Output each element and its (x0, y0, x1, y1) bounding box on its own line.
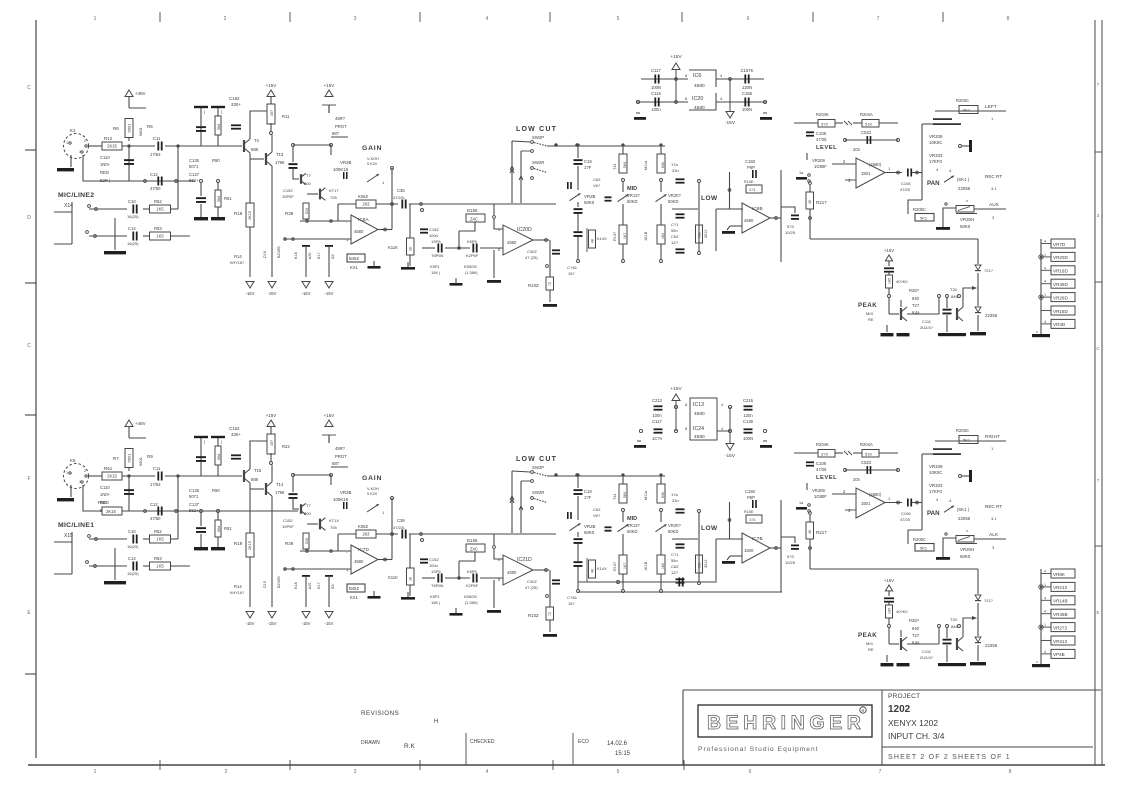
svg-text:1?F: 1?F (584, 495, 592, 500)
svg-text:KHY16?: KHY16? (230, 591, 244, 595)
svg-text:-15V: -15V (268, 621, 277, 626)
svg-text:17a: 17a (671, 492, 678, 497)
header pin VR16D (1041, 269, 1051, 271)
svg-text:1G80F: 1G80F (814, 494, 827, 499)
svg-text:Z4C: Z4C (470, 547, 478, 552)
svg-text:C12: C12 (150, 502, 158, 507)
high EQ column C19 (577, 144, 579, 146)
svg-text:3.1: 3.1 (991, 186, 997, 191)
svg-text:VR20?: VR20? (668, 193, 681, 198)
svg-text:Professional Studio Equipment: Professional Studio Equipment (698, 746, 819, 753)
svg-text:K4a: K4a (912, 640, 920, 645)
svg-text:C14: C14 (128, 226, 136, 231)
resistor R108 (746, 515, 762, 523)
svg-text:33n: 33n (672, 168, 679, 173)
svg-text:5071: 5071 (189, 164, 199, 169)
svg-text:3012: 3012 (704, 230, 708, 238)
insert return row (89, 235, 127, 237)
-15V symbol 2 (726, 444, 734, 451)
svg-text:705: 705 (330, 525, 337, 530)
ground aux (942, 556, 944, 557)
svg-text:55n: 55n (671, 228, 678, 233)
transistor KT1X (307, 523, 318, 525)
svg-text:VR16D: VR16D (1053, 269, 1068, 274)
svg-text:VR213: VR213 (1053, 585, 1067, 590)
svg-text:C15Z: C15Z (429, 557, 439, 562)
svg-text:+15V: +15V (884, 248, 894, 253)
svg-text:K2P6F: K2P6F (466, 583, 479, 588)
title block frame (682, 690, 684, 765)
svg-text:-15V: -15V (302, 621, 311, 626)
Behringer logo (698, 705, 872, 737)
level input wire (794, 452, 818, 454)
svg-text:R22: R22 (282, 444, 290, 449)
svg-text:K4a: K4a (912, 310, 920, 315)
svg-text:R205C: R205C (913, 207, 926, 212)
frame right double border (1094, 20, 1096, 765)
svg-text:C215: C215 (743, 398, 754, 403)
capacitor C156 (730, 78, 764, 80)
svg-text:C115: C115 (651, 91, 661, 96)
resistor R62 bottom channel (102, 507, 122, 515)
svg-text:C12: C12 (150, 172, 158, 177)
svg-text:1?F: 1?F (584, 165, 592, 170)
svg-text:K55/2K: K55/2K (464, 594, 477, 599)
pan feed wire (921, 124, 923, 200)
svg-text:K06Z: K06Z (358, 524, 368, 529)
svg-text:R6: R6 (113, 126, 119, 131)
svg-text:C136: C136 (743, 419, 754, 424)
ground aux (942, 226, 944, 227)
low-cut RC network (422, 577, 435, 579)
svg-text:4580: 4580 (694, 105, 705, 111)
svg-text:K55/2K: K55/2K (464, 264, 477, 269)
svg-text:K17: K17 (317, 582, 321, 589)
ground stem (114, 218, 116, 250)
svg-text:R10Z: R10Z (528, 613, 539, 618)
svg-text:R217: R217 (816, 200, 827, 205)
svg-text:GAIN: GAIN (362, 145, 382, 152)
svg-text:50K0: 50K0 (584, 530, 595, 535)
svg-text:PEAK: PEAK (858, 302, 877, 309)
resistor R6 phantom (125, 119, 133, 138)
XLR pin1 ground (70, 155, 72, 167)
output RIGHT (935, 440, 1006, 442)
capacitor C214 (654, 428, 663, 430)
header pin VR213 (1041, 586, 1051, 588)
op-amp supply box IC13 (690, 398, 717, 440)
svg-text:10K0C: 10K0C (929, 470, 942, 475)
svg-text:5: 5 (617, 769, 620, 775)
capacitor C11 input (157, 142, 159, 151)
op-amp IC7D (351, 545, 378, 574)
svg-text:+15V: +15V (266, 413, 277, 418)
svg-text:47/50: 47/50 (150, 186, 161, 191)
svg-text:VR7D: VR7D (1053, 242, 1066, 247)
output AUX (974, 208, 1006, 210)
resistor R205C (908, 200, 922, 214)
drawing frame left border (35, 20, 37, 758)
svg-text:000: 000 (304, 511, 311, 516)
svg-text:MIC/LINE1: MIC/LINE1 (58, 522, 94, 529)
resistor R111 (421, 539, 424, 542)
wire input cold (83, 485, 195, 511)
ground b (407, 262, 409, 267)
svg-text:PAN: PAN (927, 180, 940, 187)
svg-text:c: c (1036, 660, 1038, 664)
resistor R90 (211, 106, 225, 108)
svg-text:MIX: MIX (866, 641, 873, 646)
svg-text:K6b: K6b (661, 492, 665, 498)
svg-text:4: 4 (1044, 650, 1046, 654)
resistor R204A (862, 450, 879, 458)
capacitor C117 (654, 75, 656, 84)
svg-text:519: 519 (305, 538, 309, 544)
-15V arrow 2 (268, 282, 276, 289)
ground left 2 (634, 445, 646, 448)
resistor R17 (325, 575, 333, 577)
resistor R204K (818, 450, 835, 458)
connector bracket (71, 532, 73, 574)
svg-text:R90: R90 (212, 158, 220, 163)
svg-text:15?: 15? (568, 271, 575, 276)
svg-text:T20: T20 (950, 287, 958, 292)
resistor R18 (302, 575, 310, 577)
svg-text:T14: T14 (276, 482, 284, 487)
svg-text:50KD: 50KD (627, 529, 637, 534)
svg-text:C213: C213 (652, 398, 663, 403)
svg-text:x: x (966, 199, 968, 203)
op-amp IC6B (742, 203, 770, 233)
resistor R204A (862, 120, 879, 128)
capacitor C11 input (157, 472, 159, 481)
svg-text:22356: 22356 (985, 313, 998, 318)
svg-text:1501: 1501 (861, 501, 871, 506)
-15V arrow 4 (325, 612, 333, 619)
op-amp level 1501 (856, 488, 885, 518)
svg-text:887: 887 (332, 461, 340, 466)
svg-text:C10: C10 (128, 529, 136, 534)
svg-text:4: 4 (1044, 266, 1046, 270)
svg-text:1SP6: 1SP6 (431, 239, 442, 244)
svg-text:22056: 22056 (958, 186, 971, 191)
-15V arrow 1 (246, 282, 254, 289)
insert send row (89, 208, 127, 210)
svg-text:15?: 15? (568, 601, 575, 606)
svg-text:C108: C108 (816, 461, 827, 466)
svg-text:VR8K: VR8K (1053, 572, 1066, 577)
svg-text:C11: C11 (153, 466, 161, 471)
svg-text:1: 1 (66, 141, 68, 145)
svg-text:R12: R12 (104, 136, 113, 141)
svg-text:]: ] (221, 439, 222, 444)
svg-text:47/22L: 47/22L (393, 195, 406, 200)
svg-text:VR339: VR339 (929, 464, 943, 469)
svg-text:47 (25): 47 (25) (525, 585, 538, 590)
svg-text:PROT: PROT (335, 454, 347, 459)
EQ top bus (547, 145, 665, 147)
svg-text:VR273: VR273 (1053, 625, 1067, 630)
svg-text:2: 2 (224, 16, 227, 22)
svg-text:100N: 100N (742, 107, 752, 112)
transistor T13 (271, 135, 273, 152)
svg-text:3.1: 3.1 (991, 516, 997, 521)
svg-text:PAN: PAN (927, 510, 940, 517)
svg-text:2K15: 2K15 (248, 541, 252, 550)
svg-text:C?46: C?46 (567, 595, 577, 600)
header pin VR8K (1041, 573, 1051, 575)
svg-text:4580: 4580 (507, 240, 517, 245)
capacitor C216 (744, 428, 753, 430)
ground a (373, 591, 375, 596)
svg-text:T7: T7 (306, 503, 311, 508)
svg-text:K1: K1 (70, 128, 76, 133)
svg-text:1G80F: 1G80F (814, 164, 827, 169)
capacitor C162 (231, 124, 241, 126)
svg-text:C152: C152 (283, 518, 293, 523)
svg-text:R25?: R25? (909, 288, 920, 293)
svg-text:56d: 56d (217, 196, 221, 202)
frame bottom border (28, 764, 1105, 766)
svg-text:4K: 4K (808, 199, 812, 204)
transistor T7 (300, 174, 302, 184)
svg-text:4: 4 (1044, 320, 1046, 324)
wire cascode top (293, 474, 331, 476)
svg-text:C150: C150 (745, 159, 756, 164)
capacitor C10 (132, 535, 134, 544)
svg-text:16(25): 16(25) (127, 214, 139, 219)
svg-text:4: 4 (486, 16, 489, 22)
low cut riser wires (511, 141, 513, 203)
ground c (455, 608, 457, 613)
svg-text:IC13: IC13 (693, 402, 704, 408)
svg-text:1Z?: 1Z? (671, 240, 679, 245)
svg-text:?21?: ?21? (984, 268, 994, 273)
svg-text:C11: C11 (153, 136, 161, 141)
svg-text:R204A: R204A (860, 112, 873, 117)
XLR connector K5 (64, 464, 89, 489)
svg-text:519: 519 (305, 208, 309, 214)
svg-text:INPUT CH. 3/4: INPUT CH. 3/4 (888, 731, 945, 741)
svg-text:VR20H: VR20H (960, 547, 974, 552)
svg-text:1796: 1796 (275, 490, 285, 495)
level pot VR209 (806, 153, 808, 160)
svg-text:2K15: 2K15 (106, 509, 116, 514)
svg-text:GAIN: GAIN (362, 475, 382, 482)
resistor D155 box (458, 577, 461, 580)
svg-text:1K5: 1K5 (156, 537, 164, 542)
svg-text:C14: C14 (128, 556, 136, 561)
svg-text:+15V: +15V (670, 386, 682, 392)
svg-text:R90: R90 (212, 488, 220, 493)
output wire ic2 (533, 239, 549, 241)
svg-text:?21?: ?21? (984, 598, 994, 603)
svg-text:1K: 1K (409, 246, 413, 251)
svg-text:R62: R62 (98, 500, 107, 505)
svg-text:+48V: +48V (135, 421, 146, 426)
svg-text:120n: 120n (743, 413, 753, 418)
svg-text:4: 4 (1044, 240, 1046, 244)
svg-text:K6b: K6b (661, 162, 665, 168)
resistor R103 (698, 180, 701, 183)
svg-text:4: 4 (1044, 596, 1046, 600)
resistor R91 lower (217, 180, 220, 183)
EQ output bus (780, 170, 782, 262)
svg-text:KT1X: KT1X (329, 518, 339, 523)
op-amp supply box IC6 (689, 70, 716, 87)
svg-text:4580: 4580 (354, 559, 364, 564)
svg-text:R204K: R204K (816, 112, 829, 117)
resistor R53 (150, 562, 171, 570)
svg-text:C19: C19 (584, 159, 592, 164)
+48V phantom symbol (125, 90, 133, 97)
svg-text:C137: C137 (189, 172, 200, 177)
svg-text:K14X: K14X (597, 566, 607, 571)
svg-text:R53: R53 (154, 556, 162, 561)
svg-text:T4: T4 (254, 138, 260, 143)
svg-text:5K1: 5K1 (963, 108, 971, 113)
svg-text:VR333: VR333 (929, 483, 943, 488)
svg-text:3: 3 (354, 16, 357, 22)
svg-text:KX1: KX1 (350, 595, 359, 600)
capacitor C152 labels (420, 558, 428, 560)
svg-text:R13?: R13? (613, 562, 617, 571)
svg-text:4: 4 (1044, 570, 1046, 574)
svg-text:1: 1 (1044, 293, 1046, 297)
svg-text:10/25: 10/25 (785, 230, 796, 235)
capacitor C10 (132, 205, 134, 214)
capacitor C?a (437, 574, 439, 583)
svg-text:5K6: 5K6 (623, 162, 627, 168)
connector header stack (1040, 569, 1042, 660)
svg-text:263: 263 (363, 202, 371, 207)
wire input cold (83, 155, 195, 181)
capacitor C?b (472, 574, 474, 583)
ground stem (114, 548, 116, 580)
svg-text:R: R (862, 708, 865, 713)
op-amp supply box IC20 (689, 93, 716, 110)
svg-text:C106: C106 (901, 511, 911, 516)
svg-text:ALK: ALK (989, 532, 999, 538)
svg-text:F: F (27, 476, 30, 482)
-15V arrow 3 (302, 612, 310, 619)
svg-text:5?3: 5?3 (787, 554, 794, 559)
svg-text:1500: 1500 (744, 548, 754, 553)
svg-text:33n: 33n (672, 498, 679, 503)
ground right (760, 117, 772, 120)
op-amp IC20D (503, 225, 533, 255)
capacitor C162 (231, 454, 241, 456)
high EQ column C19 (577, 474, 579, 476)
resistor R217 (809, 512, 812, 515)
op-amp level 1501 (856, 158, 885, 188)
svg-text:17KF0: 17KF0 (929, 489, 942, 494)
svg-text:VR20D: VR20D (1053, 255, 1068, 260)
svg-text:5K1: 5K1 (920, 216, 928, 221)
svg-text:40?K0: 40?K0 (896, 279, 908, 284)
svg-text:D155: D155 (467, 208, 478, 213)
svg-text:R204A: R204A (860, 442, 873, 447)
svg-text:1A5: 1A5 (888, 608, 892, 614)
svg-text:]: ] (221, 109, 222, 114)
svg-text:120N: 120N (742, 85, 752, 90)
EQ output bus (780, 500, 782, 592)
svg-text:R61: R61 (104, 466, 113, 471)
svg-text:C36: C36 (397, 518, 405, 523)
svg-text:VR20?: VR20? (668, 523, 681, 528)
peak base wire (907, 643, 939, 645)
svg-text:8: 8 (1009, 769, 1012, 775)
svg-text:|SK1 |: |SK1 | (957, 177, 969, 182)
svg-text:T6P6N: T6P6N (431, 253, 444, 258)
svg-text:100n: 100n (651, 107, 661, 112)
svg-text:50KD: 50KD (627, 199, 637, 204)
transistor T20 (956, 308, 958, 320)
svg-text:C0Z2: C0Z2 (861, 460, 872, 465)
svg-text:2: 2 (84, 139, 86, 143)
resistor R19 (249, 483, 251, 533)
svg-text:VR45D: VR45D (1053, 282, 1068, 287)
svg-text:1: 1 (1044, 253, 1046, 257)
svg-text:4K: 4K (591, 568, 595, 573)
svg-text:2: 2 (225, 769, 228, 775)
svg-text:SW2P: SW2P (532, 135, 544, 140)
svg-text:100K16: 100K16 (333, 497, 349, 502)
svg-text:K06Z: K06Z (358, 194, 368, 199)
capacitor C116 (654, 98, 656, 107)
svg-text:1K: 1K (409, 576, 413, 581)
svg-text:100n: 100n (429, 563, 438, 568)
svg-text:LOW CUT: LOW CUT (516, 126, 557, 133)
svg-text:C135: C135 (189, 158, 200, 163)
capacitor C108 (806, 131, 814, 133)
svg-text:5?3: 5?3 (787, 224, 794, 229)
-15V arrow 1 (246, 612, 254, 619)
svg-text:4580: 4580 (694, 411, 705, 417)
svg-text:4K: 4K (591, 238, 595, 243)
header pin VR45D (1041, 283, 1051, 285)
capacitor C?a (437, 244, 439, 253)
svg-text:IC20: IC20 (692, 96, 703, 102)
svg-text:10P0F: 10P0F (282, 524, 294, 529)
svg-text:K5: K5 (70, 458, 76, 463)
-15V symbol (726, 112, 734, 119)
svg-text:10b: 10b (698, 562, 702, 568)
svg-text:6801: 6801 (127, 123, 132, 133)
svg-text:47/25: 47/25 (900, 517, 911, 522)
capacitor C136 lower (200, 510, 203, 513)
svg-text:T27: T27 (912, 303, 920, 308)
svg-text:LEVEL: LEVEL (816, 475, 837, 481)
aux pot VR20H (943, 208, 956, 226)
svg-text:888: 888 (251, 147, 259, 152)
minus input down leg (493, 580, 495, 608)
svg-text:K2P6F: K2P6F (466, 253, 479, 258)
svg-text:45?: 45? (270, 440, 274, 446)
svg-text:1: 1 (94, 16, 97, 22)
svg-text:V6?: V6? (593, 183, 601, 188)
peak bus wire (810, 568, 978, 570)
svg-text:XENYX 1202: XENYX 1202 (888, 718, 938, 728)
svg-text:2K15: 2K15 (107, 474, 117, 479)
-15V arrow 4 (325, 282, 333, 289)
peak grounds (886, 655, 888, 662)
svg-text:7: 7 (877, 16, 880, 22)
svg-text:c: c (1036, 330, 1038, 334)
transistor T15 (243, 470, 245, 482)
svg-text:5071: 5071 (189, 494, 199, 499)
svg-text:LOW CUT: LOW CUT (516, 456, 557, 463)
